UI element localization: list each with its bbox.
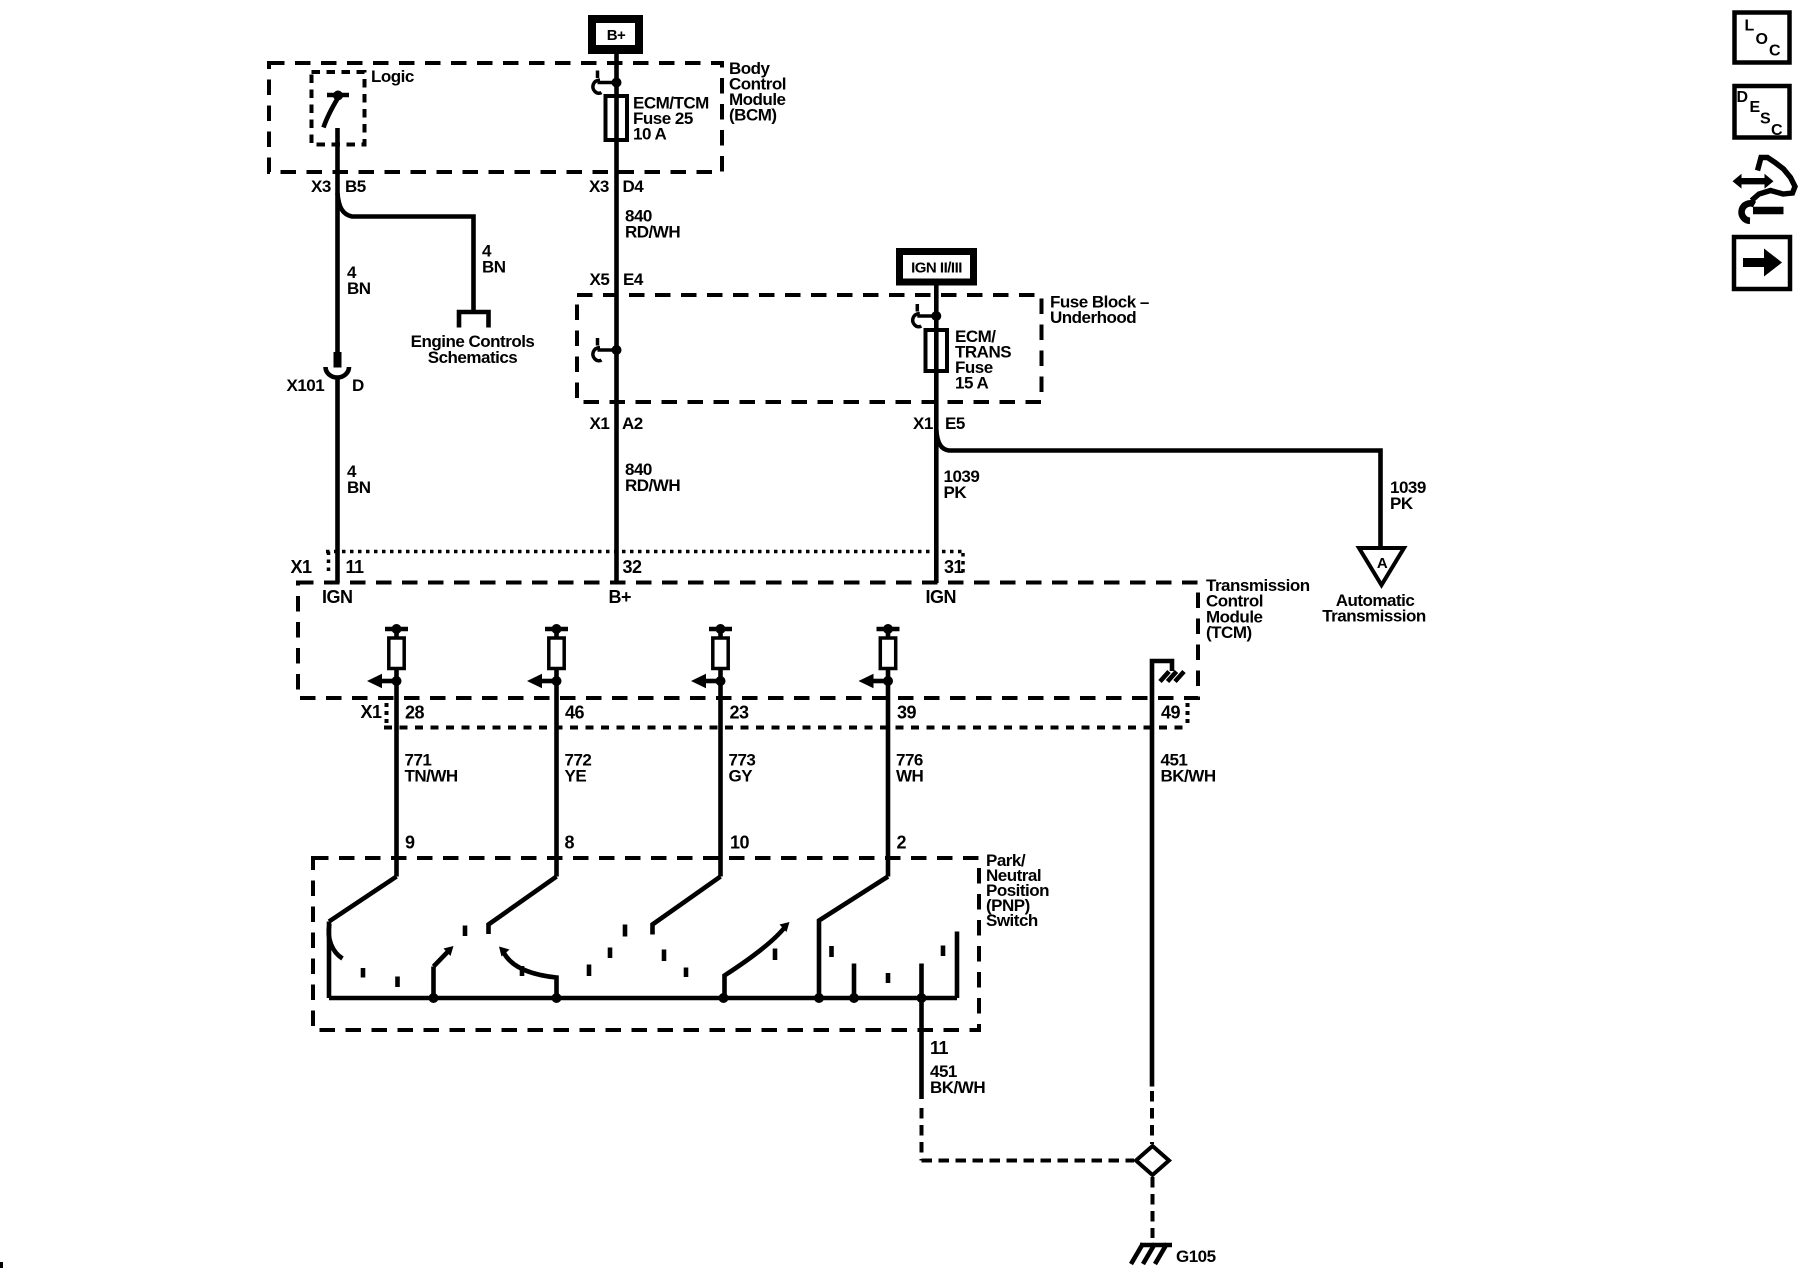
svg-text:L: L xyxy=(1745,18,1755,35)
connector X101 pin D labels xyxy=(287,376,365,395)
wire branch 4 BN to Engine Controls Schematics xyxy=(338,193,474,310)
svg-text:8: 8 xyxy=(565,833,575,853)
svg-text:D: D xyxy=(352,376,364,395)
svg-text:A2: A2 xyxy=(622,414,643,433)
svg-text:X3: X3 xyxy=(589,177,609,196)
connector X101 cup symbol xyxy=(326,367,350,378)
connector X3 pin B5 labels xyxy=(311,177,366,196)
PNP output wire (pin 11) xyxy=(919,964,924,1100)
wire 771 TN/WH (pin 28 to PNP pin 9) xyxy=(394,697,399,877)
svg-text:10 A: 10 A xyxy=(633,125,667,144)
junction dot on 840 wire in fuse block xyxy=(612,345,622,355)
wiring repair icon (arrows and wrench) xyxy=(1733,158,1796,221)
connector X1 (TCM top) dotted row xyxy=(326,552,964,576)
svg-text:PK: PK xyxy=(1390,494,1414,513)
switch S1 inside Logic box xyxy=(324,95,350,128)
connector X5 pin E4 labels xyxy=(590,270,644,289)
Automatic Transmission triangle connector A xyxy=(1359,548,1404,585)
connector X3 pin D4 labels xyxy=(589,177,644,196)
svg-text:O: O xyxy=(1756,31,1768,48)
label 840 RD/WH (upper) xyxy=(625,207,680,242)
resistor R4 with output arrow (pin 39) xyxy=(874,629,900,697)
svg-text:RD/WH: RD/WH xyxy=(625,223,680,242)
svg-text:E5: E5 xyxy=(945,414,965,433)
PNP switch pole 1 blade (pin 9) xyxy=(329,877,397,922)
svg-text:Schematics: Schematics xyxy=(428,348,518,367)
label 771 TN/WH xyxy=(405,751,458,786)
resistor R1 with output arrow (pin 28) xyxy=(382,629,408,697)
label 4 BN (upper left wire) xyxy=(347,263,371,298)
svg-text:10: 10 xyxy=(730,833,750,853)
DESC icon box xyxy=(1735,86,1790,139)
wire branch 1039 PK to Automatic Transmission xyxy=(936,430,1380,548)
svg-text:IGN: IGN xyxy=(926,587,957,607)
svg-text:BK/WH: BK/WH xyxy=(1161,767,1216,786)
junction dot on B+ wire xyxy=(612,78,622,88)
svg-text:D4: D4 xyxy=(623,177,645,196)
TCM internal chassis ground hatches xyxy=(1160,672,1184,682)
svg-text:C: C xyxy=(1771,122,1783,139)
svg-text:28: 28 xyxy=(405,703,425,723)
connector X1 pin A2 labels xyxy=(590,414,643,433)
svg-text:RD/WH: RD/WH xyxy=(625,476,680,495)
label 451 BK/WH (bottom) xyxy=(930,1062,985,1097)
Transmission Control Module (TCM) dashed box xyxy=(298,583,1198,699)
hook tap symbol on IGN wire in fuse block xyxy=(913,304,937,327)
svg-text:B5: B5 xyxy=(345,177,366,196)
wire continues below X101 xyxy=(335,378,340,583)
svg-text:X1: X1 xyxy=(913,414,933,433)
svg-text:32: 32 xyxy=(623,557,643,577)
pole 2 left arc with arrow xyxy=(434,951,449,967)
connector X101 terminal symbol xyxy=(334,352,342,368)
Automatic Transmission label xyxy=(1322,591,1426,626)
Fuse Block - Underhood dashed box xyxy=(577,295,1042,402)
wire 451 BK/WH (pin 49 down) xyxy=(1150,698,1155,1087)
pole 4 blade (pin 2) xyxy=(819,877,888,999)
connector X1 (TCM bottom) dotted row xyxy=(384,703,1190,728)
svg-text:46: 46 xyxy=(565,703,585,723)
svg-text:GY: GY xyxy=(729,767,754,786)
PNP right end stub xyxy=(955,932,960,999)
svg-text:Underhood: Underhood xyxy=(1050,308,1136,327)
junction dot on IGN wire xyxy=(931,311,941,321)
splice diamond xyxy=(1136,1146,1169,1175)
svg-text:39: 39 xyxy=(897,703,917,723)
fuse F1 label xyxy=(633,94,709,144)
svg-text:D: D xyxy=(1737,89,1749,106)
svg-text:11: 11 xyxy=(930,1038,949,1058)
Park/Neutral Position (PNP) Switch dashed box xyxy=(313,858,979,1030)
svg-text:S: S xyxy=(1760,111,1771,128)
hook tap symbol on 840 RD/WH wire in fuse block xyxy=(593,338,617,361)
svg-text:BN: BN xyxy=(347,478,371,497)
label 1039 PK (left) xyxy=(944,467,980,502)
wire 776 WH (pin 39 to PNP pin 2) xyxy=(886,697,891,877)
connector X1 pin E5 labels xyxy=(913,414,965,433)
wire IGN vertical from IGN II/III box xyxy=(934,286,939,584)
svg-text:49: 49 xyxy=(1161,703,1181,723)
resistor R3 with output arrow (pin 23) xyxy=(706,629,732,697)
pole 3 arc with arrow xyxy=(725,927,786,998)
switch S1 pivot dot xyxy=(333,91,343,101)
detour arrow icon box xyxy=(1734,237,1790,289)
svg-text:Transmission: Transmission xyxy=(1322,607,1426,626)
wire B+ vertical from B+ box through fuse xyxy=(614,54,619,96)
pole 1 wiper hook xyxy=(329,924,343,959)
svg-text:YE: YE xyxy=(565,767,587,786)
svg-text:BN: BN xyxy=(347,279,371,298)
pole 2 blade with end tick (pin 8) xyxy=(489,877,557,935)
TCM internal ground (pin 49) xyxy=(1152,661,1172,698)
svg-text:Switch: Switch xyxy=(986,911,1038,930)
label 1039 PK (right) xyxy=(1390,478,1426,513)
svg-text:X3: X3 xyxy=(311,177,331,196)
dashed wire splice to G105 xyxy=(1151,1177,1155,1238)
pole 2 right arc with arrow xyxy=(503,951,557,998)
PNP common bus xyxy=(329,996,957,1001)
pole 3 blade with end tick (pin 10) xyxy=(653,877,721,935)
stray mark at left edge xyxy=(0,1262,3,1268)
label 451 BK/WH (right) xyxy=(1161,751,1216,786)
label 776 WH xyxy=(896,751,924,786)
resistor R2 with output arrow (pin 46) xyxy=(542,629,568,697)
svg-text:Logic: Logic xyxy=(371,67,414,86)
svg-text:9: 9 xyxy=(405,833,415,853)
Body Control Module (BCM) dashed box xyxy=(269,63,722,172)
label 772 YE xyxy=(565,751,592,786)
svg-text:31: 31 xyxy=(944,557,964,577)
hook tap symbol at BCM feed xyxy=(593,71,617,94)
PNP stub contact xyxy=(852,964,857,999)
svg-text:15 A: 15 A xyxy=(955,374,989,393)
svg-text:C: C xyxy=(1769,43,1781,60)
fuse F2 ECM/TRANS Fuse 15A xyxy=(926,330,948,371)
svg-text:TN/WH: TN/WH xyxy=(405,767,458,786)
LOC icon box xyxy=(1735,13,1790,63)
Engine Controls Schematics label xyxy=(411,332,535,367)
svg-text:X1: X1 xyxy=(590,414,610,433)
svg-text:X5: X5 xyxy=(590,270,610,289)
label 773 GY xyxy=(729,751,756,786)
svg-text:(TCM): (TCM) xyxy=(1206,623,1252,642)
svg-text:G105: G105 xyxy=(1176,1247,1216,1266)
svg-text:(BCM): (BCM) xyxy=(729,106,777,125)
Logic box (dashed) xyxy=(312,72,365,145)
svg-text:11: 11 xyxy=(346,557,365,577)
svg-text:PK: PK xyxy=(944,483,968,502)
svg-text:B+: B+ xyxy=(607,27,626,44)
PNP position tick marks xyxy=(363,925,943,988)
svg-text:E4: E4 xyxy=(623,270,644,289)
svg-text:BK/WH: BK/WH xyxy=(930,1078,985,1097)
pole 1 riser to common bus xyxy=(327,922,332,999)
fuse F1 ECM/TCM Fuse 25 10A xyxy=(606,96,628,140)
svg-text:IGN II/III: IGN II/III xyxy=(911,260,962,277)
wire 772 YE (pin 46 to PNP pin 8) xyxy=(554,697,559,877)
Fuse Block label xyxy=(1050,293,1149,328)
svg-text:WH: WH xyxy=(896,767,924,786)
node B+ power feed box xyxy=(588,15,643,54)
svg-text:23: 23 xyxy=(730,703,750,723)
label 4 BN (branch) xyxy=(482,242,506,277)
fuse F2 label xyxy=(955,327,1011,393)
node IGN II/III power feed box xyxy=(896,248,977,286)
svg-text:2: 2 xyxy=(897,833,907,853)
svg-text:IGN: IGN xyxy=(322,587,353,607)
PNP Switch label xyxy=(986,851,1049,930)
svg-text:BN: BN xyxy=(482,258,506,277)
label 4 BN (lower left wire) xyxy=(347,462,371,497)
svg-text:X1: X1 xyxy=(361,702,383,722)
svg-text:E: E xyxy=(1750,99,1761,116)
TCM label xyxy=(1206,576,1310,642)
wire from Logic switch to TCM pin 11 (vertical) xyxy=(335,128,340,352)
dashed wire 451 BK/WH to splice xyxy=(1150,1091,1154,1144)
svg-text:X101: X101 xyxy=(287,376,325,395)
BCM label xyxy=(729,59,786,125)
svg-text:A: A xyxy=(1377,555,1388,572)
ground G105 symbol xyxy=(1131,1244,1172,1265)
svg-text:X1: X1 xyxy=(291,557,313,577)
label 840 RD/WH (lower) xyxy=(625,460,680,495)
svg-text:B+: B+ xyxy=(609,587,632,607)
wire 773 GY (pin 23 to PNP pin 10) xyxy=(718,697,723,877)
dashed wire from pin 11 to splice xyxy=(922,1108,1135,1161)
off-page connector fork to Engine Controls Schematics xyxy=(459,312,489,328)
